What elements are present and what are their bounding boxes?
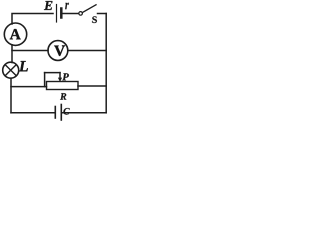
switch S pivot	[79, 12, 83, 16]
wire: bottom left to capacitor	[11, 112, 55, 114]
wire: branch to rheostat left	[11, 86, 47, 88]
wire: wiper loop vertical left	[44, 73, 46, 87]
voltmeter V	[48, 41, 68, 61]
battery E (long plate)	[56, 5, 58, 23]
capacitor C right plate	[60, 105, 62, 121]
wire: ammeter top to battery positive	[12, 14, 53, 25]
capacitor label C	[63, 108, 69, 114]
wiper label P	[62, 73, 69, 80]
wire: rheostat right to right rail	[78, 85, 106, 87]
wire: wiper loop horizontal top	[45, 72, 60, 74]
wire: ammeter bottom to lamp (left rail upper)	[11, 45, 13, 63]
internal resistance label r	[65, 3, 69, 10]
wiper arrow head P	[58, 78, 62, 82]
voltmeter letter V	[54, 46, 65, 56]
wire: battery to switch	[63, 13, 79, 15]
switch S blade	[82, 5, 96, 13]
ammeter A	[4, 23, 26, 45]
rheostat label R	[60, 93, 66, 99]
capacitor C left plate	[54, 107, 56, 119]
lamp L cross stroke 2	[5, 65, 16, 76]
lamp label L	[19, 61, 28, 71]
wire: switch to right rail	[98, 13, 107, 15]
wire: wiper loop down to arrow	[59, 73, 61, 78]
lamp L cross stroke 1	[5, 65, 16, 76]
battery E (short thick plate)	[60, 9, 63, 18]
battery label E	[44, 1, 52, 10]
wire: capacitor right to right rail	[62, 112, 106, 114]
lamp L (bulb circle)	[3, 62, 19, 78]
rheostat R body	[47, 82, 79, 90]
wire: voltmeter right to right rail	[68, 50, 106, 52]
wire: right rail	[105, 14, 107, 113]
switch label S	[92, 16, 97, 23]
ammeter letter A	[10, 29, 21, 39]
wire: lamp bottom down left rail	[10, 78, 12, 113]
wire: voltmeter branch from left-rail junction	[12, 50, 48, 52]
